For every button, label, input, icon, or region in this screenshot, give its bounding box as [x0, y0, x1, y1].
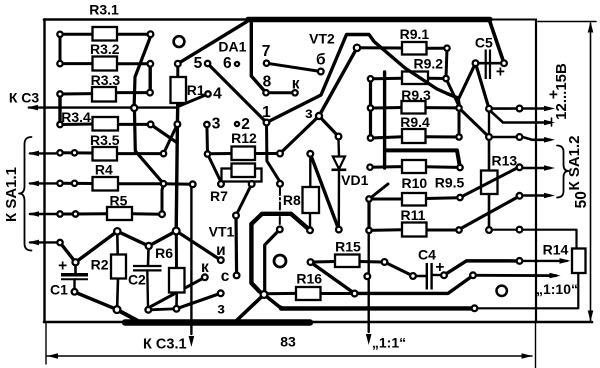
- pad R8 jumper bottom: [277, 227, 283, 233]
- capacitor C1 plates: [61, 273, 88, 277]
- pad VT1 k: [202, 274, 208, 280]
- wire R9.1-R9.2 right pads: [446, 48, 447, 78]
- wire DA1 pin7 to VT2 b pad: [267, 63, 321, 71]
- bottom dimension line 83: [47, 355, 532, 357]
- K SA1.1 arrow 3 (y=214): [30, 213, 57, 215]
- svg-text:2: 2: [241, 116, 250, 133]
- K SA1.1 arrow 2 (y=183.4): [30, 182, 57, 184]
- pad R3.2 right: [147, 61, 153, 67]
- svg-text:+: +: [496, 64, 505, 81]
- pad DA1 pin4: [205, 91, 210, 96]
- wire R16 right: [321, 292, 352, 295]
- resistor R15: [335, 255, 360, 268]
- pad R4 right: [161, 181, 166, 186]
- pad R8 jumper top: [277, 181, 283, 187]
- wire R4 right pad to C3.1 pad: [164, 182, 193, 186]
- node C1 top junction: [72, 259, 78, 265]
- wire R9.2 right: [428, 77, 446, 80]
- pad ground bus right: [472, 305, 478, 311]
- wire bus row pads verticals: [369, 79, 372, 138]
- svg-text:з: з: [217, 301, 225, 318]
- pad VD1 top: [336, 134, 342, 140]
- trace C5 left pad to arrow2 pad: [476, 63, 490, 108]
- pad R12 right: [277, 151, 283, 157]
- wire R3.2 left: [60, 62, 93, 65]
- resistor R16: [296, 287, 321, 300]
- svg-text:VT1: VT1: [209, 224, 235, 240]
- resistor R4: [93, 177, 119, 191]
- pad DA1 pin3: [204, 122, 209, 127]
- wire R10 left pad diag to bus: [369, 184, 388, 199]
- svg-text:R3.4: R3.4: [61, 109, 91, 125]
- pad DA1 pin8: [263, 90, 268, 95]
- pad SA arrow4: [517, 164, 523, 170]
- wire R9.2 left: [371, 77, 403, 81]
- svg-text:DA1: DA1: [218, 39, 246, 55]
- wire R5 right pad up to R4 node: [162, 185, 164, 215]
- svg-text:50: 50: [573, 191, 590, 208]
- wire R3.4 right: [118, 123, 151, 126]
- trace C2 top pad to junction pad A: [149, 231, 177, 246]
- K C3.1 arrow (vertical down): [190, 186, 192, 334]
- K SA1.2 brace: [557, 146, 569, 198]
- pad R4 left: [57, 181, 62, 186]
- svg-text:8: 8: [263, 73, 272, 90]
- pad DA1 pin2: [235, 122, 239, 126]
- trace KC3 node to R4 right pad: [135, 112, 164, 184]
- trace VT1 k pad to C2 pad: [149, 277, 205, 307]
- svg-text:12...15В: 12...15В: [553, 63, 570, 120]
- 1:1 arrow (vertical down): [368, 232, 370, 332]
- pad R9.3 left: [368, 105, 373, 110]
- svg-text:VD1: VD1: [341, 172, 368, 188]
- board right edge: [535, 20, 537, 323]
- wire DA1 pin5 to pin1: [208, 64, 267, 123]
- resistor R10: [402, 193, 426, 206]
- pads: [57, 31, 522, 313]
- wire R3.3 left: [60, 92, 93, 95]
- svg-text:7: 7: [262, 43, 271, 60]
- pad SA arrow5: [517, 193, 523, 199]
- board left edge extension (dimension): [45, 322, 47, 364]
- pad R9.5 right: [457, 165, 462, 170]
- wire R6 bottom: [175, 292, 178, 306]
- pad R3.1 right: [148, 31, 154, 37]
- resistor R7: [222, 169, 262, 182]
- wire R15 left: [313, 260, 335, 264]
- pad R3.2 left: [57, 61, 62, 66]
- wire C2 pad to R6 pad: [150, 307, 173, 311]
- svg-text:и: и: [216, 242, 226, 259]
- pad VT1 u: [218, 257, 224, 263]
- wire left pads R3.1-R3.2: [59, 34, 62, 63]
- svg-text:С2: С2: [128, 272, 146, 288]
- trace R16 pad bus y293 to 1:10 pad: [358, 276, 473, 294]
- board left edge: [43, 20, 45, 323]
- svg-text:R3.3: R3.3: [91, 72, 121, 88]
- pad DA1 pin1: [264, 120, 270, 126]
- pad DA1 k: [292, 90, 297, 95]
- trace R12 right pad to VT2 emitter pad: [280, 116, 319, 154]
- svg-text:R9.4: R9.4: [400, 114, 430, 130]
- wire R11 right: [427, 229, 457, 232]
- trace R8 jumper pad to center junction: [265, 229, 280, 291]
- svg-text:R14: R14: [543, 242, 569, 258]
- wire arrow1 pads: [492, 107, 516, 110]
- wire R9.3 right pad to R13 top pad: [459, 108, 489, 137]
- wire VT1 node down to c pad: [234, 216, 238, 276]
- pad C2 bottom: [145, 307, 151, 313]
- wire pad4 to line A: [178, 94, 208, 107]
- right dimension line 50: [590, 23, 592, 321]
- wire C4 right: [432, 274, 441, 277]
- pad R9.5 left: [367, 165, 372, 170]
- svg-text:R3.1: R3.1: [89, 2, 119, 18]
- svg-text:R9.2: R9.2: [414, 56, 444, 72]
- resistor R13: [481, 171, 498, 195]
- tick mark near arrow2: [551, 118, 553, 126]
- pad R3.3 left: [57, 91, 62, 96]
- pad R13 top: [486, 134, 492, 140]
- diode VD1: [333, 157, 345, 170]
- pad R9.4 right: [456, 134, 461, 139]
- pad R10 right: [457, 195, 462, 200]
- resistor R1: [171, 77, 187, 103]
- wire R15 right: [360, 260, 382, 264]
- pad VT1 z: [218, 290, 224, 296]
- pad R15 right: [382, 259, 388, 265]
- K SA1.1 brace: [19, 137, 32, 251]
- pad R7 left: [218, 181, 224, 187]
- wire R3.1 right: [117, 33, 151, 36]
- node junction A: [173, 228, 180, 235]
- pad R9.2 right: [443, 76, 448, 81]
- wire R10 right pad to SA1.2 pad (crosses R13 body): [460, 167, 519, 198]
- svg-text:1: 1: [262, 104, 271, 121]
- svg-text:К SA1.2: К SA1.2: [566, 135, 583, 190]
- capacitor C2 plates: [133, 265, 162, 267]
- pad DA1 pin5: [205, 61, 210, 66]
- svg-text:С5: С5: [475, 35, 493, 51]
- pad arrow4: [57, 240, 62, 245]
- pad arrow2: [486, 106, 492, 112]
- trace VT2 emitter pad to VT2 collector pad: [319, 48, 357, 116]
- pad R3.4 left: [57, 122, 62, 127]
- pad C4 right: [441, 272, 447, 278]
- pad R12 left: [205, 151, 210, 156]
- wire R3.2 right: [117, 62, 151, 65]
- 1:10 arrow (y=275.6): [477, 274, 556, 277]
- wire R16 left to center junction: [264, 292, 296, 295]
- wire R7 right pad to VT1 node: [236, 184, 252, 216]
- pad R16 right: [352, 291, 358, 297]
- pad R9.2 left: [368, 76, 373, 81]
- svg-text:К С3.1: К С3.1: [143, 337, 187, 353]
- K SA1.1 arrow 1 (y=153.4): [30, 152, 56, 154]
- resistor R14: [572, 249, 586, 274]
- K C3 arrow (left, y=107.6): [29, 106, 178, 108]
- pad R13 bottom: [486, 227, 492, 233]
- svg-text:+: +: [435, 259, 444, 276]
- wire R9.2 right pad to R9.3 right pad: [446, 79, 459, 106]
- svg-text:R3.5: R3.5: [90, 132, 120, 148]
- svg-text:R9.3: R9.3: [401, 87, 431, 103]
- svg-text:R9.1: R9.1: [400, 26, 430, 42]
- trace border to R1 pad: [178, 22, 247, 64]
- svg-text:R8: R8: [283, 192, 301, 208]
- board top edge right thin part: [488, 19, 536, 21]
- pad R7 right: [249, 181, 255, 187]
- resistor R5: [107, 207, 132, 220]
- wire R3.4 left: [60, 123, 93, 127]
- svg-text:5: 5: [194, 55, 203, 72]
- trace R6 pad to VT1 z pad: [177, 293, 221, 309]
- svg-text:з: з: [305, 105, 313, 122]
- wire R3.5 left: [60, 151, 93, 154]
- wire DA1 pin8 to k pad: [266, 91, 295, 94]
- resistor R3.5: [93, 147, 118, 161]
- board bottom edge: [44, 321, 592, 324]
- dash-dot jumper R8: [279, 188, 281, 226]
- board top edge thick copper trace: [248, 17, 490, 22]
- wire R13 top pads: [489, 136, 520, 139]
- wire R9.4 right: [426, 135, 460, 138]
- trace C5 left pad to R9.3 right pad: [459, 63, 476, 99]
- pad 1:10: [470, 272, 476, 278]
- svg-text:+: +: [58, 258, 67, 275]
- pad C5 left: [473, 60, 479, 66]
- pad R9.4 left: [368, 135, 373, 140]
- capacitor C4 plates: [426, 263, 428, 290]
- +12..15V arrow 1 (y=108.5): [524, 107, 551, 110]
- wire R10-R11 left pads: [367, 199, 370, 230]
- svg-text:К С3: К С3: [9, 90, 40, 106]
- resistor R9.1: [402, 42, 427, 55]
- pad R3.5 left2: [72, 150, 77, 155]
- pad C4 left: [410, 273, 416, 279]
- trace apex to C2 top pad: [117, 231, 148, 246]
- pad R6 bottom: [174, 306, 180, 312]
- vertical line A: R1 bottom to junction: [176, 102, 178, 231]
- trace C1 pad to bottom junction: [75, 292, 118, 310]
- wire R3.1 left: [60, 33, 93, 36]
- wire R10 left: [373, 198, 402, 201]
- pad C1 bottom: [72, 289, 78, 295]
- pad R5 left: [57, 211, 62, 216]
- wire VD1 top: [337, 140, 340, 157]
- svg-text:С4: С4: [418, 247, 436, 263]
- wire apex to R2 top: [116, 233, 119, 255]
- wire R2 bottom to junction: [116, 278, 119, 306]
- trace center junction to border: [236, 295, 264, 322]
- wire R5 right: [132, 212, 162, 216]
- wire R11 right pad to SA pad: [459, 196, 520, 230]
- pad R1 bottom: [175, 121, 181, 127]
- resistor R9.2: [402, 72, 428, 85]
- svg-text:R2: R2: [91, 257, 109, 273]
- trace DA1 pin1 to VT2 roof and R9.3 pad (crosses R9.2 body): [267, 35, 460, 123]
- board right edge extension (dimension): [535, 322, 537, 368]
- svg-text:R7: R7: [210, 188, 228, 204]
- wire VT2 collector to R9.1: [357, 46, 402, 49]
- wire R13 top: [488, 137, 491, 171]
- trace arrow4 pad to C1 junction: [60, 243, 76, 263]
- wire R3.4 right pad to vertical A: [151, 124, 177, 142]
- resistor R3.4: [93, 117, 119, 131]
- pad R1 top: [175, 61, 181, 67]
- wire R12 left: [208, 152, 232, 155]
- pad R3.1 left: [57, 32, 62, 37]
- svg-text:с: с: [221, 268, 230, 285]
- trace R8 top pad to VD1 bottom pad: [310, 154, 339, 230]
- pad DA1 pin7: [264, 61, 269, 66]
- pad arrow3: [517, 134, 523, 140]
- pad R9.1 right: [444, 46, 449, 51]
- trace R3.1 right pad down to KC3 node: [134, 37, 150, 105]
- svg-text:С1: С1: [50, 282, 68, 298]
- pad VT1 c: [234, 273, 240, 279]
- svg-text:R11: R11: [401, 207, 426, 223]
- node center junction: [261, 291, 268, 298]
- pad VT2 e: [316, 113, 322, 119]
- resistor R2: [111, 255, 126, 279]
- arrow 2 (y=122.5): [491, 112, 550, 123]
- pad VT1 node: [233, 213, 239, 219]
- pad R8 bottom: [307, 227, 313, 233]
- svg-text:R4: R4: [95, 162, 113, 178]
- wire pin3 pad to R7 left pad: [208, 154, 222, 182]
- top trace corner diagonal to C5: [490, 21, 505, 64]
- wire R9.1 right: [427, 47, 448, 50]
- arrow 3 (y=139.5): [524, 137, 551, 140]
- wire junction A to R6 top: [175, 234, 178, 269]
- svg-text:б: б: [316, 51, 326, 68]
- svg-text:R15: R15: [335, 239, 361, 255]
- wire C2 bottom to pad: [146, 271, 149, 307]
- trace top border to DA1 pin8: [251, 21, 266, 93]
- svg-text:R5: R5: [110, 193, 128, 209]
- pad C2 top: [146, 243, 152, 249]
- capacitor C5 plates: [485, 50, 487, 80]
- svg-text:к: к: [292, 76, 300, 93]
- trace R15 left pad to R16 right pad: [311, 262, 355, 293]
- resistor R6: [169, 268, 185, 293]
- trace bottom junction to border: [117, 310, 139, 322]
- svg-text:R3.2: R3.2: [90, 41, 120, 57]
- wire R9.4 left: [371, 137, 403, 138]
- wire R3.5 right: [117, 152, 160, 155]
- resistor R12 (two sections): [232, 147, 256, 161]
- pad DA1 pin6: [235, 62, 239, 66]
- bottom ground trace thick fill: [125, 319, 310, 326]
- wire ground bus pad to R14 bottom: [478, 273, 578, 309]
- pad VT2 b: [318, 69, 324, 75]
- svg-text:„1:10“: „1:10“: [536, 281, 578, 297]
- pad R14 arrow: [517, 258, 523, 264]
- wire R9.5 right: [426, 165, 457, 169]
- wire R9.3 left: [371, 106, 402, 110]
- pad KC3.1: [190, 181, 196, 187]
- pad R8 top: [307, 151, 313, 157]
- pad R13 row right: [517, 227, 523, 233]
- trace VT2 emitter to VD1 top pad: [319, 116, 339, 137]
- ground bus y308.5: [281, 306, 471, 311]
- pad VD1 bottom: [336, 227, 342, 233]
- wire VD1 bottom: [338, 171, 341, 226]
- wire left pads R3.3-R3.4: [58, 94, 61, 125]
- svg-text:R6: R6: [155, 245, 173, 261]
- wire R8 bottom: [309, 213, 311, 228]
- svg-text:4: 4: [213, 86, 222, 103]
- trace R15 right pad to C4 left pad: [385, 262, 414, 276]
- node KC3: [131, 105, 137, 111]
- wire R8 top: [309, 157, 311, 188]
- svg-text:VT2: VT2: [309, 31, 335, 47]
- R14 arrow (y=261): [524, 260, 568, 262]
- wire C1 bottom to pad: [73, 280, 75, 290]
- SA1.2 arrow 4 (y=168): [524, 167, 550, 170]
- resistor R3.2: [93, 57, 118, 71]
- resistor R8: [303, 187, 320, 213]
- pad R5 left2: [73, 211, 78, 216]
- thick wire bus to R9.5 right pad: [386, 150, 460, 167]
- wire C2 top pad to plate: [147, 249, 150, 266]
- wire R13 bottom: [488, 194, 491, 231]
- wire R4 right: [118, 182, 164, 185]
- wire R3.3 right: [116, 91, 150, 94]
- wire R10 right: [426, 196, 458, 200]
- resistor R3.1: [93, 27, 118, 41]
- pad R3.5 left: [57, 150, 62, 155]
- wire R11 left: [369, 228, 402, 232]
- wire R1 top: [176, 64, 179, 78]
- wire R13 bottom pad to R14 top: [494, 230, 577, 249]
- mounting hole center: [274, 255, 286, 267]
- resistor R9.3: [402, 101, 426, 114]
- resistor R3.3: [92, 87, 116, 102]
- svg-text:К SA1.1: К SA1.1: [3, 167, 20, 222]
- wire R9.3 right: [426, 106, 460, 109]
- svg-text:3: 3: [212, 116, 221, 133]
- svg-text:6: 6: [223, 55, 232, 72]
- resistor R11: [402, 223, 427, 237]
- center bus vertical: [383, 72, 386, 168]
- wire R3.5 right pad up to pad A: [164, 124, 178, 153]
- svg-text:83: 83: [280, 334, 296, 350]
- svg-text:к: к: [201, 259, 209, 276]
- pad 1:1: [364, 273, 370, 279]
- SA1.2 arrow 5 (y=195.5): [524, 194, 550, 197]
- pad R5 right: [159, 211, 165, 217]
- wire R9.3-R9.4 right pads: [458, 108, 461, 137]
- svg-text:R16: R16: [296, 271, 322, 287]
- mounting hole top left: [174, 36, 185, 47]
- wire right pads R3.2-R3.3: [148, 64, 151, 93]
- wire R4 left: [60, 182, 93, 185]
- mounting hole bottom right: [497, 286, 507, 296]
- wire C5 pads: [476, 62, 505, 65]
- wire C1 plus: [74, 265, 77, 273]
- wire arrow2 pad down to R13 top pad: [488, 109, 490, 137]
- pad R15 left: [308, 259, 314, 265]
- svg-text:R13: R13: [491, 153, 517, 169]
- node apex: [114, 228, 120, 234]
- pad VT2 c: [354, 45, 360, 51]
- pad R3.4 right: [148, 122, 154, 128]
- wire R12 right: [255, 152, 280, 155]
- wire DA1 pin3 down: [205, 125, 209, 155]
- trace C1 junction to apex: [76, 231, 118, 262]
